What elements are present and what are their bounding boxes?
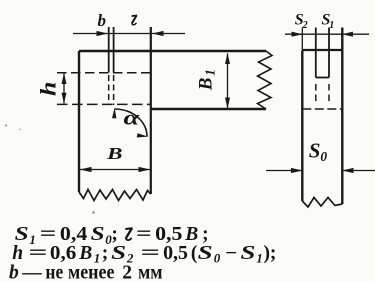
- formula l glyph: [125, 228, 132, 240]
- svg-text:S: S: [198, 243, 213, 264]
- svg-text:−: −: [225, 243, 237, 264]
- svg-text:B: B: [78, 243, 92, 264]
- speck 2: [19, 129, 21, 131]
- svg-text:0: 0: [320, 149, 327, 164]
- S left arrow: [292, 32, 303, 37]
- B1 arrow up: [225, 53, 230, 64]
- left part left edge: [78, 51, 80, 192]
- B1 dimension line: [227, 54, 229, 109]
- S0 dim line left: [266, 170, 302, 172]
- svg-text:2: 2: [302, 20, 308, 31]
- svg-text:S: S: [111, 243, 126, 264]
- S right arrow: [342, 32, 353, 37]
- svg-text:1: 1: [329, 20, 334, 31]
- dimension line b-l: [73, 33, 185, 35]
- speck 1: [5, 125, 7, 127]
- column break zigzag: [79, 190, 151, 201]
- svg-text:S: S: [241, 243, 256, 264]
- right part break zigzag: [302, 198, 342, 208]
- svg-text:α: α: [124, 106, 141, 129]
- right part right edge: [341, 28, 343, 205]
- svg-text:=: =: [29, 243, 48, 264]
- svg-text:менее: менее: [68, 262, 115, 282]
- B dimension line: [80, 169, 150, 171]
- hidden line h top: [57, 72, 150, 74]
- right slot bottom: [316, 77, 329, 79]
- right part left ext line: [301, 28, 303, 52]
- svg-text:;: ;: [270, 243, 277, 264]
- svg-text:h: h: [36, 82, 61, 97]
- right part left edge: [301, 51, 303, 201]
- right part top edge: [302, 49, 342, 51]
- svg-text:мм: мм: [138, 262, 163, 282]
- svg-text:2: 2: [122, 262, 132, 282]
- svg-text:(: (: [191, 243, 198, 264]
- S0 arrow left: [291, 168, 303, 173]
- svg-text:—: —: [21, 262, 42, 282]
- speck 3: [92, 211, 94, 213]
- left part arm bottom edge: [151, 108, 266, 110]
- svg-text:B: B: [106, 144, 123, 163]
- slot left edge: [108, 27, 110, 73]
- right slot left edge: [315, 28, 317, 78]
- right hidden bottom line: [302, 108, 342, 110]
- right slot left hidden: [315, 84, 317, 105]
- formula line 2: [12, 243, 276, 266]
- arrow b: [97, 31, 109, 36]
- slot right hidden line: [113, 75, 115, 105]
- svg-text:0: 0: [214, 251, 221, 266]
- slot left hidden line: [108, 75, 110, 105]
- h arrow down: [62, 93, 67, 104]
- formula line 3: [9, 262, 163, 282]
- formula line 1: [15, 224, 209, 247]
- right slot right edge: [328, 28, 330, 78]
- label l: [132, 15, 138, 24]
- B arrow left: [80, 167, 92, 172]
- arrow l: [152, 31, 164, 36]
- svg-text:;: ;: [102, 243, 109, 264]
- arm break zigzag: [258, 51, 273, 109]
- svg-text:1: 1: [256, 251, 263, 266]
- alpha arc arrow right: [137, 133, 149, 137]
- S dim line: [285, 33, 369, 35]
- h arrow up: [62, 73, 67, 84]
- svg-text:0,6: 0,6: [50, 243, 77, 264]
- label B1 (rotated): [195, 69, 217, 91]
- svg-text:=: =: [141, 243, 161, 264]
- S0 dim line right: [343, 170, 375, 172]
- h dimension line: [63, 74, 65, 104]
- svg-text:0,5: 0,5: [163, 243, 188, 264]
- B arrow right: [139, 167, 151, 172]
- svg-text:b: b: [98, 11, 107, 30]
- slot right edge: [113, 27, 115, 73]
- alpha arc: [115, 109, 148, 137]
- svg-text:не: не: [45, 262, 63, 282]
- right slot right hidden: [328, 84, 330, 105]
- hidden line h bottom: [57, 103, 151, 105]
- svg-text:1: 1: [202, 69, 217, 76]
- B1 arrow down: [225, 98, 230, 109]
- svg-text:B: B: [195, 78, 216, 92]
- alpha arc arrow top: [112, 108, 116, 119]
- svg-text:b: b: [9, 262, 19, 282]
- svg-text:h: h: [12, 243, 23, 264]
- left part right edge: [150, 27, 152, 194]
- label alpha: [124, 106, 141, 129]
- S0 arrow right: [342, 168, 354, 173]
- left part top edge: [79, 50, 266, 52]
- svg-text:S: S: [309, 139, 321, 163]
